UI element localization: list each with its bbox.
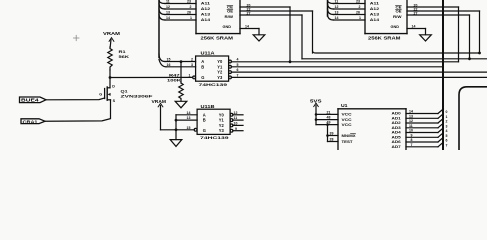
wire bus to SRAM1 A12 <box>165 8 196 10</box>
ground (U11B) <box>170 140 182 147</box>
svg-text:AD4: AD4 <box>392 131 402 135</box>
svg-text:2: 2 <box>190 5 192 9</box>
svg-text:15: 15 <box>187 126 191 130</box>
SRAM1 pin 20 CE stub <box>240 6 290 8</box>
registration cross mark <box>74 35 80 40</box>
bus2 tap A12 <box>328 4 334 10</box>
svg-text:10: 10 <box>234 122 238 126</box>
svg-text:3: 3 <box>191 63 193 67</box>
wire SRAM1 CE down <box>289 7 291 62</box>
svg-text:Y1: Y1 <box>217 64 223 69</box>
svg-text:GND: GND <box>223 25 232 29</box>
decoder U11B 74HC139 <box>197 104 230 140</box>
svg-text:7: 7 <box>446 143 448 147</box>
svg-text:56K: 56K <box>119 54 130 59</box>
svg-text:4: 4 <box>237 58 239 62</box>
SRAM1 GND pin 14 <box>240 28 259 30</box>
resistor R1 56K <box>108 47 129 70</box>
svg-text:100K: 100K <box>167 77 181 82</box>
decoder U11A 74HC139 <box>196 51 229 87</box>
node junction drain/G-wire <box>109 76 112 79</box>
CPU U1 <box>338 109 406 150</box>
bus2 tap A13 <box>328 9 334 15</box>
AD wires and bus taps <box>406 114 438 147</box>
svg-text:A12: A12 <box>201 7 210 11</box>
svg-text:14: 14 <box>412 25 416 29</box>
wire R1 to Q1 drain <box>109 70 111 88</box>
wire VCC tie to MN/MX,TEST <box>327 125 329 142</box>
wire Y0 to CE net <box>231 61 458 63</box>
svg-text:A14: A14 <box>201 18 211 22</box>
svg-text:2: 2 <box>446 120 448 124</box>
svg-text:15: 15 <box>167 58 171 62</box>
svg-text:AD1: AD1 <box>392 116 401 120</box>
svg-text:BUE4: BUE4 <box>21 98 39 103</box>
svg-text:1: 1 <box>359 16 361 20</box>
svg-text:G: G <box>99 93 102 97</box>
bus tap A13 <box>159 9 165 15</box>
SRAM2 pin 20 CE stub <box>407 6 459 8</box>
svg-text:4: 4 <box>446 129 448 133</box>
wire SRAM1 OE down <box>312 11 314 53</box>
svg-text:13: 13 <box>335 11 339 15</box>
svg-text:26: 26 <box>187 11 191 15</box>
bus tap bit16 to U11A B <box>159 60 166 67</box>
resistor R47 100K <box>167 60 183 101</box>
svg-text:14: 14 <box>335 16 339 20</box>
svg-text:Y2: Y2 <box>219 123 225 128</box>
ground (SRAM2) <box>420 35 432 41</box>
svg-text:27: 27 <box>414 11 418 15</box>
ground (R47) <box>175 101 187 108</box>
svg-text:S: S <box>113 99 116 103</box>
svg-text:21: 21 <box>327 111 331 115</box>
SRAM2 pin 27 R/W stub <box>407 14 470 16</box>
wire U11B pin14 A <box>176 114 197 116</box>
svg-text:G: G <box>203 128 206 133</box>
svg-text:VCC: VCC <box>342 123 352 127</box>
svg-text:D: D <box>112 84 115 88</box>
svg-text:A11: A11 <box>201 2 210 6</box>
svg-text:VCC: VCC <box>342 113 352 117</box>
svg-text:TEST: TEST <box>342 140 354 144</box>
svg-text:VRAM: VRAM <box>152 99 167 104</box>
svg-text:0: 0 <box>446 110 448 114</box>
wire VRAM to U11B G <box>161 129 195 131</box>
svg-text:AD3: AD3 <box>392 126 401 130</box>
svg-text:U1: U1 <box>341 103 348 108</box>
wire Y2 <box>231 71 487 73</box>
svg-text:12: 12 <box>234 111 238 115</box>
svg-text:A: A <box>201 59 204 64</box>
svg-text:AD7: AD7 <box>392 145 401 149</box>
svg-text:AD5: AD5 <box>392 135 401 139</box>
frame box (bottom right, rounded) <box>459 87 487 150</box>
svg-text:Y2: Y2 <box>217 70 223 75</box>
svg-text:2: 2 <box>359 5 361 9</box>
svg-text:6: 6 <box>237 68 239 72</box>
wire SRAM1 R/W down <box>301 15 303 59</box>
svg-text:A11: A11 <box>370 2 379 6</box>
svg-text:ZVN3306F: ZVN3306F <box>121 93 154 98</box>
svg-text:74HC139: 74HC139 <box>199 82 229 87</box>
svg-text:VCC: VCC <box>342 118 352 122</box>
svg-text:MN/MX: MN/MX <box>342 134 357 138</box>
U11B output bubbles <box>230 113 233 116</box>
net flag BUE4 <box>20 97 47 103</box>
svg-text:A13: A13 <box>370 13 379 17</box>
svg-text:Y0: Y0 <box>219 112 225 117</box>
svg-text:14: 14 <box>166 16 170 20</box>
AD data bus (right, vertical) <box>442 0 444 150</box>
svg-text:12: 12 <box>335 5 339 9</box>
svg-text:13: 13 <box>166 11 170 15</box>
power flag 5VS <box>310 98 322 124</box>
wire Y3 <box>231 76 487 78</box>
svg-text:11: 11 <box>166 0 170 4</box>
svg-text:Y3: Y3 <box>219 128 225 133</box>
svg-text:6: 6 <box>446 139 448 143</box>
wire SRAM2 R/W down <box>469 15 471 59</box>
svg-text:B: B <box>203 118 206 123</box>
svg-text:B: B <box>201 64 204 69</box>
wire U11B pin13 B <box>176 119 197 121</box>
SRAM2 pin 22 OE stub <box>407 10 480 12</box>
svg-text:AD2: AD2 <box>392 121 401 125</box>
svg-text:14: 14 <box>187 111 191 115</box>
bus2 tap A11 <box>328 0 334 4</box>
net flag CRA1 <box>21 119 45 125</box>
svg-text:5: 5 <box>446 134 448 138</box>
svg-text:3: 3 <box>446 124 448 128</box>
svg-text:OE: OE <box>396 10 403 14</box>
svg-text:A14: A14 <box>370 18 380 22</box>
wire bus2 to SRAM2 A12 <box>334 8 366 10</box>
wire Y1 <box>231 66 443 68</box>
SRAM U? 256K (right chip) <box>365 0 407 34</box>
transistor Q1 ZVN3306F <box>99 84 153 103</box>
SRAM U? 256K (left chip) <box>196 0 240 34</box>
wire bus2 to SRAM2 A13 <box>334 14 366 16</box>
bus2 tap A14 <box>328 15 334 21</box>
svg-text:A12: A12 <box>370 7 379 11</box>
svg-text:1: 1 <box>446 115 448 119</box>
bus tap A14 <box>159 15 165 21</box>
U11B G input bubble <box>194 128 197 131</box>
svg-text:28: 28 <box>330 138 334 142</box>
svg-text:Y1: Y1 <box>219 118 225 123</box>
svg-text:R/W: R/W <box>393 15 402 19</box>
svg-text:1: 1 <box>189 74 191 78</box>
svg-text:GND: GND <box>391 25 400 29</box>
power flag VRAM (top, above R1) <box>103 31 121 47</box>
SRAM1 pin 22 OE stub <box>240 10 313 12</box>
svg-text:U11B: U11B <box>201 104 215 109</box>
ground (SRAM1) <box>253 35 265 41</box>
wire node to U11A pin G <box>110 76 193 78</box>
svg-text:256K SRAM: 256K SRAM <box>201 36 234 41</box>
svg-text:G: G <box>201 75 204 80</box>
svg-text:CRA1: CRA1 <box>23 119 39 124</box>
svg-text:Y0: Y0 <box>217 59 223 64</box>
wire SRAM2 OE down <box>479 11 481 53</box>
svg-text:R/W: R/W <box>225 15 234 19</box>
wire U11B A/B tie down to ground <box>175 115 177 140</box>
SRAM1 pin 27 R/W stub <box>240 14 302 16</box>
node OE/chip2 <box>478 52 481 55</box>
svg-text:74HC139: 74HC139 <box>200 135 230 140</box>
svg-text:VRAM: VRAM <box>103 31 121 36</box>
address bus (left) <box>158 0 160 58</box>
svg-text:A: A <box>203 112 206 117</box>
svg-text:14: 14 <box>245 25 249 29</box>
svg-text:A13: A13 <box>201 13 210 17</box>
bus tap A11 <box>159 0 165 4</box>
svg-text:9: 9 <box>235 127 237 131</box>
net R/W horizontal <box>302 58 487 60</box>
svg-text:13: 13 <box>187 116 191 120</box>
wire bus to SRAM1 A13 <box>165 14 196 16</box>
wire bit15 to U11A pin2 A <box>165 61 196 63</box>
svg-text:U11A: U11A <box>201 51 215 56</box>
svg-text:11: 11 <box>234 116 238 120</box>
svg-text:AD0: AD0 <box>392 112 401 116</box>
svg-text:27: 27 <box>247 11 251 15</box>
svg-text:16: 16 <box>167 63 171 67</box>
svg-text:39: 39 <box>330 132 334 136</box>
power flag VRAM (above U11B) <box>152 99 167 130</box>
svg-text:23: 23 <box>356 0 360 4</box>
wire BUE4 to Q1 gate <box>46 98 105 100</box>
svg-text:1: 1 <box>190 16 192 20</box>
wire bus2 to SRAM2 A11 <box>334 3 366 5</box>
svg-text:2: 2 <box>191 58 193 62</box>
U11A G input bubble <box>193 76 196 79</box>
svg-text:26: 26 <box>356 11 360 15</box>
wire 5VS to U1 VCC pins <box>316 113 338 115</box>
U11B output stubs <box>233 114 243 116</box>
svg-text:12: 12 <box>166 5 170 9</box>
svg-text:48: 48 <box>327 116 331 120</box>
bus tap bit15 to U11A A <box>159 54 165 62</box>
svg-text:23: 23 <box>187 0 191 4</box>
wire bus to SRAM1 A11 <box>165 3 196 5</box>
U1 AD0 pin 14 <box>392 110 448 149</box>
bus tap A12 <box>159 4 165 10</box>
node RW/chip2 <box>468 57 471 60</box>
wire bit16 to U11A pin3 B <box>166 66 196 68</box>
address bus (chip2 left) <box>327 0 329 16</box>
SRAM2 GND pin 14 <box>407 28 426 30</box>
U11A output bubbles <box>229 60 232 63</box>
svg-text:256K SRAM: 256K SRAM <box>368 36 401 41</box>
node CE/Y0 <box>289 60 292 63</box>
wire bus to SRAM1 A14 <box>165 19 196 21</box>
svg-text:AD6: AD6 <box>392 140 401 144</box>
wire CRA1 to Q1 source <box>45 100 111 121</box>
svg-text:11: 11 <box>335 0 339 4</box>
wire bus2 to SRAM2 A14 <box>334 19 366 21</box>
svg-text:OE: OE <box>227 10 234 14</box>
net OE horizontal <box>313 51 480 53</box>
svg-text:Y3: Y3 <box>217 75 223 80</box>
